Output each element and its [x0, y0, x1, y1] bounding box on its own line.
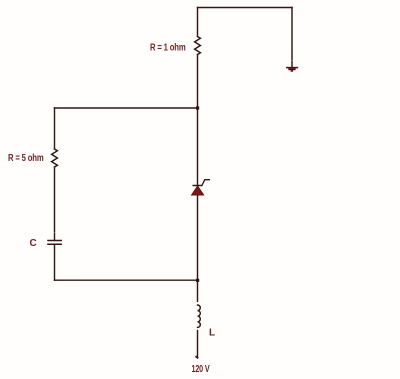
wire bottom horizontal: [55, 279, 198, 281]
wire left vertical lower: [54, 244, 56, 280]
capacitor C plates: [48, 241, 61, 245]
resistor R2 (R = 5 ohm): [52, 149, 58, 167]
wire main vertical between SCR and inductor: [197, 195, 199, 301]
wire left vertical middle: [54, 167, 56, 240]
wire left vertical upper: [54, 108, 56, 149]
ground: [286, 68, 298, 71]
wire top horizontal: [198, 7, 293, 9]
resistor R1 (R = 1 ohm): [195, 37, 201, 55]
svg-text:L: L: [209, 328, 215, 339]
junction node lower: [196, 279, 199, 282]
inductor L coil: [198, 305, 201, 327]
svg-text:120 V: 120 V: [192, 364, 210, 375]
svg-text:R = 5 ohm: R = 5 ohm: [8, 153, 44, 164]
wire main vertical between R1 and SCR: [197, 55, 199, 186]
svg-text:R = 1 ohm: R = 1 ohm: [150, 43, 186, 54]
wire bottom vertical: [197, 331, 199, 358]
SCR Q1: [192, 180, 210, 195]
wire main vertical upper: [197, 8, 199, 37]
wire right vertical: [291, 8, 293, 67]
svg-text:C: C: [30, 238, 37, 249]
junction node upper: [196, 106, 199, 109]
wire mid horizontal: [55, 107, 198, 109]
wire end tick: [196, 356, 197, 359]
